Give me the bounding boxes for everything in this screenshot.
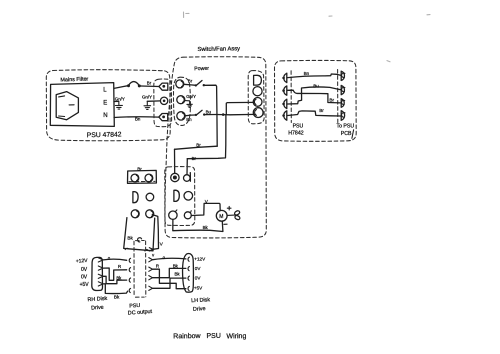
fan plug upper housing [128, 170, 157, 183]
wire label V (motor feed) [205, 199, 209, 204]
inline splice connector on L wire [127, 82, 141, 88]
svg-text:Br: Br [329, 97, 334, 102]
connector T2 (ring, E) [160, 97, 167, 104]
fan connector F3 (violet pin) [169, 210, 177, 220]
wire: F4 to motor (violet) [191, 203, 220, 215]
wire label Br (switch input) [188, 79, 193, 84]
wire o (DC out to LH) [153, 258, 186, 259]
motor + terminal [227, 206, 231, 210]
fan connector F1 (live pin) [171, 173, 179, 181]
plug key D [133, 192, 138, 203]
wire: F3 to motor minus (black) [173, 220, 223, 232]
svg-text:R: R [118, 264, 121, 269]
label: PCB [341, 131, 352, 137]
wire label R (RH) [118, 264, 121, 269]
connector R2' (socket to PCB) [341, 85, 345, 94]
svg-text:Bn: Bn [186, 117, 192, 122]
label: Switch/Fan Assy [197, 46, 240, 53]
svg-text:Bk: Bk [114, 295, 120, 300]
svg-text:Br: Br [196, 143, 201, 148]
wire Bk (DC out pin3 to LH 0V) [153, 268, 186, 277]
svg-text:Drive: Drive [193, 306, 206, 313]
label Br (plug top) [137, 167, 142, 172]
wire label Bn (under C3 wire) [186, 117, 192, 122]
label 0V (LH socket2) [195, 266, 202, 271]
connector R2 (round key) [253, 87, 262, 96]
svg-text:H7842: H7842 [288, 130, 303, 136]
svg-text:Rainbow: Rainbow [173, 333, 201, 340]
dashed box around PSU-side connectors [154, 79, 172, 127]
fan connector key O [184, 192, 193, 201]
wire: down into fan connector F1 [174, 149, 176, 173]
svg-text:0V: 0V [195, 266, 202, 271]
svg-text:Bk: Bk [173, 263, 179, 268]
plug socket P3 [131, 210, 139, 218]
svg-text:N: N [103, 113, 107, 119]
DC out pin 3 [149, 276, 153, 280]
svg-text:Bu: Bu [313, 83, 319, 88]
wire: E to ground [114, 100, 119, 102]
RH pin 4 (+5V) [98, 282, 103, 286]
wire label Bu [313, 83, 319, 88]
label Gn/Y (switch side) [186, 94, 196, 99]
svg-text:PCB: PCB [341, 131, 352, 137]
wire: junction down then left (Br to fan block) [187, 115, 226, 159]
mains filter box [50, 83, 114, 127]
hood pin c (right) [145, 250, 148, 251]
fan blades [227, 210, 241, 220]
wire: S1 corner left to fan block (Br) [175, 146, 218, 149]
svg-text:LH Disk: LH Disk [191, 297, 210, 304]
wire label Bk (bottom) [114, 295, 120, 300]
svg-text:0V: 0V [81, 267, 88, 273]
wire label Br (to R4') [319, 108, 324, 113]
label +5V (RH) [80, 282, 90, 288]
wire label Br (fan feed 1) [196, 143, 201, 148]
DC out socket c1 [129, 258, 130, 262]
DC out socket c2 [129, 268, 130, 272]
svg-text:Bn: Bn [135, 117, 141, 122]
dashed oval around switch-side connectors [173, 77, 190, 125]
wire label o (LH) [163, 255, 166, 260]
label PSU (DC out) [129, 303, 141, 310]
PSU 47842 enclosure (dashed outline) [46, 70, 170, 141]
wire: splice to connector T1 [141, 85, 159, 88]
wire: S2 output to fan connector block (right run) [205, 113, 255, 115]
svg-text:R: R [156, 263, 159, 268]
fan connector F2 (pin with key) [184, 173, 191, 182]
svg-text:+12V: +12V [76, 258, 89, 265]
svg-text:Bk: Bk [203, 225, 209, 230]
RH disk drive connector shell [92, 257, 103, 290]
svg-text:0V: 0V [195, 275, 202, 280]
wire label V (drop) [160, 241, 164, 247]
switch S1 (live pole) [184, 81, 205, 87]
dashed separator (left connector column) [290, 71, 292, 123]
connector T1 (spade, L) [159, 83, 168, 90]
DC out socket c3 [129, 278, 130, 282]
DC out pin 4 [149, 286, 153, 290]
hood wire hook c [138, 238, 142, 242]
svg-text:+5V: +5V [194, 285, 203, 290]
connector R1 (D key) [254, 75, 262, 85]
dashed separator (right connector column) [337, 70, 339, 123]
ground symbol (switch side) [185, 101, 193, 108]
wire label Br (fan feed 2) [192, 156, 197, 161]
svg-text:Gn/Y: Gn/Y [186, 94, 196, 99]
svg-text:+5V: +5V [80, 282, 90, 288]
svg-text:To PSU: To PSU [337, 123, 355, 129]
pin label N [103, 113, 107, 119]
wire: down into fan connector F2 [186, 159, 188, 175]
connector R4 (socket) [253, 108, 263, 118]
svg-text:Br: Br [188, 79, 193, 84]
DC out socket c4 [129, 288, 130, 292]
label +5V (LH) [194, 285, 203, 290]
label Bk (inside hood) [127, 235, 133, 240]
svg-text:Bn: Bn [304, 71, 310, 76]
wire label o (RH) [108, 256, 111, 261]
switch S2 (neutral pole) [185, 110, 205, 116]
wire label R (LH) [156, 263, 159, 268]
svg-text:E: E [103, 100, 107, 106]
PSU DC output dashed housing [134, 241, 146, 298]
LH disk drive connector shell [183, 254, 194, 293]
label: PSU [293, 123, 304, 129]
connector R3 (socket) [253, 98, 262, 107]
svg-text:Gn/Y: Gn/Y [115, 96, 125, 101]
label RH Disk Drive [87, 296, 107, 312]
label V (hood corner) [152, 253, 155, 258]
SVG content inserted below [46, 12, 430, 340]
stray scan marks (top) [184, 12, 431, 62]
svg-text:Bu: Bu [206, 109, 212, 114]
RH pin 2 (0V) [98, 266, 103, 270]
svg-text:PSU: PSU [129, 303, 141, 310]
DC out pin V [149, 248, 152, 251]
wire: S1 to down corner [205, 85, 217, 146]
wire R (RH pin2, staircase) [103, 268, 126, 280]
svg-text:Drive: Drive [91, 305, 104, 312]
svg-text:0V: 0V [81, 274, 88, 280]
LH socket 1 (+12V) [188, 257, 189, 261]
wire: N to connector T3 (Bn) [114, 116, 159, 119]
wire label Br (to R3') [329, 97, 334, 102]
svg-text:PSU 47842: PSU 47842 [87, 131, 122, 139]
pin label E [103, 100, 107, 106]
dashed box around fan connector block [165, 167, 195, 226]
DC out pin 1 [149, 258, 153, 262]
svg-text:+12V: +12V [194, 256, 206, 261]
connector C1 (socket, L in) [176, 80, 184, 88]
LH socket 4 (+5V) [188, 286, 189, 290]
svg-text:M: M [219, 214, 223, 220]
RH pin 1 (+12V) [98, 258, 103, 262]
svg-text:PSU: PSU [293, 123, 304, 129]
label 0V (RH pin3) [81, 274, 88, 280]
connector T3 (spade, N) [159, 114, 168, 121]
Switch/Fan assembly enclosure (dashed outline) [165, 57, 266, 238]
svg-text:Mains Filter: Mains Filter [60, 77, 88, 84]
wire label Bn [304, 71, 310, 76]
wire Bk (DC out pin4 to LH 0V) [153, 278, 186, 288]
motor - terminal [224, 223, 227, 225]
wire: ground to connector T2 [147, 100, 160, 102]
svg-text:Power: Power [194, 66, 209, 73]
svg-text:Switch/Fan Assy: Switch/Fan Assy [197, 46, 240, 53]
svg-text:Br: Br [147, 80, 152, 85]
wire: L (brown) to splice [114, 86, 127, 89]
label +12V (RH) [76, 258, 89, 265]
fan connector key D [174, 190, 179, 201]
wire Bn (L1 to R1') [288, 74, 341, 78]
hood pin c (left) [125, 248, 128, 249]
wire label Bu (after S2) [206, 109, 212, 114]
connector L3 (bullet) [282, 99, 286, 108]
wire Br (L2 to R3') [288, 90, 341, 103]
ground symbol (chassis, near T2) [144, 101, 151, 109]
plug key O [146, 193, 154, 201]
connector R3' (socket to PCB) [341, 99, 345, 108]
wire label Bk (LH lower) [175, 271, 181, 276]
label Gn/Y (second ground) [142, 95, 152, 100]
svg-text:Bk: Bk [127, 235, 133, 240]
plug socket P1 [131, 174, 139, 182]
wire label Bn (N wire) [135, 117, 141, 122]
label: H7842 [288, 130, 303, 136]
label 0V (RH pin2) [81, 267, 88, 273]
label +12V (LH) [194, 256, 206, 261]
wire o (RH pin1 to DC out) [103, 259, 126, 260]
LH socket 3 (0V) [188, 276, 189, 280]
svg-text:Br: Br [192, 156, 197, 161]
IEC inlet symbol [56, 92, 78, 120]
junction on S2 output [222, 113, 225, 116]
connector R1' (socket to PCB) [341, 71, 345, 80]
pin label L [103, 88, 107, 94]
wire label Bk (RH pin3) [116, 276, 122, 281]
PSU H7842 interconnect enclosure (dashed outline) [275, 60, 357, 141]
label 0V (LH socket3) [195, 275, 202, 280]
RH pin 3 (0V) [98, 274, 103, 278]
label Gn/Y (left ground) [115, 96, 125, 101]
connector L2 (bullet) [282, 86, 286, 95]
wire R (DC out pin2 staircase to LH +5V) [153, 269, 186, 289]
wire Bu (L3 to R2') [288, 87, 341, 104]
svg-text:PSU: PSU [206, 333, 221, 340]
fan connector F4 (black pin) [184, 211, 191, 219]
label: Mains Filter [60, 77, 88, 84]
connector L1 (bullet, Bn) [282, 73, 286, 82]
wire Bk (RH pin3, staircase) [103, 276, 126, 283]
svg-text:Gn/Y: Gn/Y [142, 95, 152, 100]
plug socket P2 [145, 174, 153, 182]
label LH Disk Drive [191, 297, 210, 313]
connector L4 (bullet) [282, 111, 286, 120]
label: PSU 47842 [87, 131, 122, 139]
wire label Br (L wire) [147, 80, 152, 85]
motor M (fan) [216, 210, 227, 221]
svg-text:Bk: Bk [175, 271, 181, 276]
ground symbol (mains filter E) [115, 101, 122, 109]
svg-text:Br: Br [319, 108, 324, 113]
LH socket 2 (0V) [188, 267, 189, 271]
wire: P4 down to DC output (violet) [152, 215, 158, 250]
svg-text:Wiring: Wiring [226, 333, 246, 340]
wire label Bk (LH upper) [173, 263, 179, 268]
title: Rainbow PSU Wiring [173, 333, 246, 341]
connector C3 (socket, N in) [177, 112, 185, 120]
connector C2 (socket, earth) [177, 96, 185, 104]
connector R4' (socket to PCB) [341, 111, 345, 121]
wire Br (L4 to R4') [288, 111, 341, 116]
stroke after PCB [352, 130, 354, 139]
label: Power [194, 66, 209, 73]
label DC output [128, 309, 153, 317]
plug cable hood [124, 218, 155, 251]
plug socket P4 [146, 210, 154, 218]
wire label Bk (fan return) [203, 225, 209, 230]
label: To PSU [337, 123, 355, 129]
wire Bk (RH pin4, bottom run) [103, 284, 127, 294]
DC out pin 2 [149, 267, 153, 271]
dashed box around fan-side right connector column [248, 71, 264, 124]
wire: junction up and right to connector R3 [226, 102, 254, 114]
